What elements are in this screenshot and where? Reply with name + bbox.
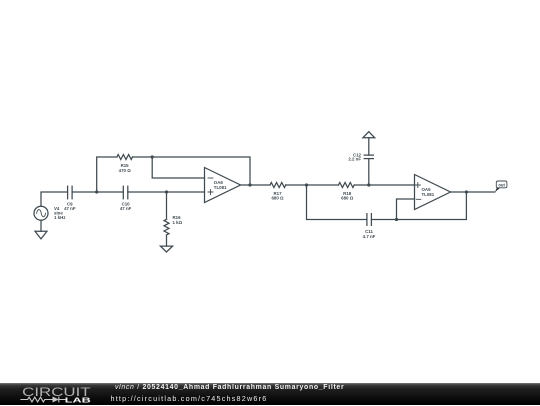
footer bar	[0, 383, 540, 405]
capacitor C11	[367, 214, 372, 226]
label C11 4.7 nF	[363, 229, 376, 239]
junction node C (OA6 output)	[248, 183, 251, 186]
wire R18 to OA5 noninverting input	[355, 184, 415, 186]
svg-text:1 kHz: 1 kHz	[54, 215, 66, 220]
ground under R16	[160, 246, 172, 252]
footer title text	[115, 384, 344, 391]
junction node B	[151, 155, 154, 158]
svg-text:out: out	[498, 182, 505, 187]
junction node F	[367, 183, 370, 186]
junction node H (OA5 output)	[465, 190, 468, 193]
wire C11 to node G to output feedback	[371, 192, 466, 220]
label V4 sine 1 kHz	[54, 206, 66, 220]
wire V4 bottom to ground	[40, 220, 42, 231]
ground under V4	[35, 231, 47, 239]
svg-text:LAB: LAB	[65, 395, 92, 404]
capacitor C12	[364, 155, 373, 159]
wire node D down to R16	[166, 192, 168, 219]
junction node A	[95, 190, 98, 193]
wire node A up to R15	[97, 157, 117, 192]
label C10 47 nF	[120, 201, 132, 211]
wire R15 to node B	[132, 156, 152, 158]
svg-text:680 Ω: 680 Ω	[271, 196, 284, 201]
label R18 680 ohm	[341, 191, 354, 201]
label R15 470 ohm	[119, 163, 132, 173]
svg-text:4.7 nF: 4.7 nF	[363, 234, 376, 239]
wire node B to OA6 output	[152, 157, 250, 185]
svg-text:470 Ω: 470 Ω	[119, 168, 132, 173]
capacitor C9	[68, 186, 73, 199]
label R16 1 kohm	[173, 215, 183, 225]
voltage source V4	[34, 206, 48, 220]
wire OA6 output to R17	[241, 184, 271, 186]
output flag "out"	[495, 181, 507, 192]
CircuitLab logo	[20, 384, 102, 406]
wire C10 to node D to OA6 noninverting input	[128, 191, 205, 193]
junction node E	[305, 183, 308, 186]
junction node G	[395, 218, 398, 221]
svg-text:1 kΩ: 1 kΩ	[173, 220, 183, 225]
svg-text:680 Ω: 680 Ω	[341, 196, 354, 201]
ground (rotated) above C12	[363, 132, 375, 138]
label C12 2.2 nF	[348, 152, 361, 161]
wire V4 top to C9	[41, 192, 68, 206]
svg-text:47 nF: 47 nF	[64, 206, 76, 211]
svg-text:TL081: TL081	[214, 185, 227, 190]
wire OA5 output to out flag	[451, 191, 495, 193]
op-amp OA6	[205, 168, 241, 203]
op-amp OA5	[415, 175, 451, 210]
label R17 680 ohm	[271, 191, 284, 201]
svg-text:TL081: TL081	[422, 192, 435, 197]
capacitor C10	[123, 186, 128, 199]
svg-text:47 nF: 47 nF	[120, 206, 132, 211]
label C9 47 nF	[64, 201, 76, 211]
wire OA5 inverting input to node G	[397, 199, 415, 220]
wire C12 to top ground	[368, 138, 370, 155]
resistor R17	[270, 183, 286, 188]
wire node F up to C12	[368, 159, 370, 185]
resistor R15	[117, 155, 133, 160]
wire node E down and to C11	[307, 185, 367, 220]
wire node A to C10	[97, 191, 124, 193]
wire C9 to node A	[72, 191, 97, 193]
svg-text:2.2 nF: 2.2 nF	[348, 156, 361, 161]
footer url text	[111, 394, 268, 403]
junction node D	[165, 190, 168, 193]
wire R16 to ground	[166, 235, 168, 246]
label OA6 TL081	[214, 180, 227, 190]
wire R17 to R18	[286, 184, 339, 186]
label OA5 TL081	[422, 187, 435, 197]
resistor R18	[339, 183, 355, 188]
wire node B down to OA6 inverting input	[152, 157, 204, 178]
resistor R16	[164, 219, 169, 235]
